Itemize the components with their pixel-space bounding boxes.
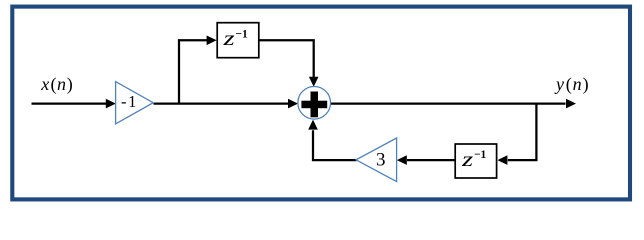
- svg-text:3: 3: [376, 150, 386, 171]
- svg-text:z: z: [461, 149, 474, 171]
- svg-text:-1: -1: [121, 92, 138, 111]
- svg-text:x(n): x(n): [40, 74, 73, 95]
- svg-text:y(n): y(n): [554, 74, 589, 95]
- svg-text:z: z: [222, 28, 235, 50]
- svg-text:−1: −1: [474, 149, 487, 161]
- svg-text:−1: −1: [235, 28, 248, 40]
